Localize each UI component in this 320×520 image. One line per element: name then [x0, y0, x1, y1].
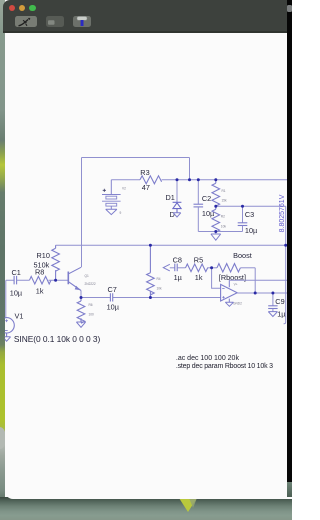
svg-text:C1: C1	[12, 268, 21, 277]
svg-text:Boost: Boost	[233, 251, 252, 260]
junction boost rail right	[284, 244, 287, 247]
toolbar pause icon (disabled)	[48, 20, 55, 25]
svg-text:100: 100	[89, 313, 95, 317]
ground (divider)	[211, 234, 221, 240]
svg-text:V2: V2	[122, 187, 126, 191]
resistor Rboost (feedback)	[212, 267, 217, 269]
wire V+ supply	[229, 279, 290, 281]
junction boost rail at R4	[149, 244, 152, 247]
svg-text:R10: R10	[37, 251, 50, 260]
ground (D1)	[173, 213, 181, 217]
capacitor C9	[268, 293, 277, 312]
svg-text:R1: R1	[222, 189, 226, 193]
capacitor C8	[175, 264, 177, 272]
toolbar run icon	[19, 18, 30, 26]
svg-text:1µ: 1µ	[277, 310, 286, 319]
junction divider mid node	[214, 205, 217, 208]
svg-text:.ac dec 100 100 20k: .ac dec 100 100 20k	[176, 355, 240, 362]
wire right vertical	[284, 206, 286, 323]
wire base	[49, 279, 69, 281]
wire mid node	[216, 205, 286, 207]
svg-text:R4: R4	[157, 277, 161, 281]
ground (emitter)	[76, 322, 85, 327]
svg-text:R3: R3	[140, 168, 149, 177]
svg-text:8.8025761V: 8.8025761V	[279, 194, 286, 232]
wire feedback drop	[254, 268, 256, 293]
svg-text:D: D	[170, 210, 175, 219]
capacitor C7	[110, 293, 112, 301]
svg-text:Q1: Q1	[85, 274, 89, 278]
wire R5 out	[207, 267, 211, 269]
svg-text:15k: 15k	[222, 199, 228, 203]
resistor R4 (mid)	[147, 245, 155, 297]
svg-text:10µ: 10µ	[107, 302, 120, 311]
svg-text:10k: 10k	[221, 225, 227, 229]
wire output rail	[237, 292, 290, 294]
ground (battery)	[106, 209, 117, 214]
ground (V1)	[3, 337, 11, 341]
junction at C3 top	[241, 205, 244, 208]
ground (C9)	[268, 312, 277, 317]
svg-text:C8: C8	[173, 256, 182, 265]
resistor R10	[52, 245, 60, 280]
resistor R8	[30, 276, 51, 284]
toolbar hammer icon	[77, 17, 87, 27]
capacitor C3	[238, 206, 248, 231]
svg-text:10µ: 10µ	[245, 226, 258, 235]
wire drop to supply rail	[189, 158, 191, 180]
junction divider bottom	[214, 230, 217, 233]
resistor R1 (divider top)	[212, 180, 220, 207]
svg-text:V+: V+	[234, 283, 238, 287]
svg-text:2N2222: 2N2222	[85, 282, 96, 286]
capacitor C1	[6, 276, 30, 285]
svg-text:.step dec param Rboost 10 10k: .step dec param Rboost 10 10k 3	[176, 363, 273, 370]
svg-text:1µ: 1µ	[174, 273, 183, 282]
resistor R3	[140, 176, 162, 184]
svg-text:10µ: 10µ	[10, 289, 23, 298]
svg-text:SINE(0 0.1 10k 0 0 0 3): SINE(0 0.1 10k 0 0 0 3)	[14, 334, 101, 344]
junction output / feedback	[254, 292, 257, 295]
svg-text:47: 47	[142, 183, 150, 192]
wire to plus input	[212, 268, 221, 289]
junction R5 / feedback node	[210, 266, 213, 269]
resistor R6 (emitter)	[77, 298, 85, 324]
wire divider bottom	[198, 231, 242, 233]
capacitor C2	[194, 180, 204, 232]
svg-text:9: 9	[120, 211, 122, 215]
resistor R2 (divider bottom)	[212, 206, 220, 232]
junction emitter node	[80, 296, 83, 299]
svg-text:1k: 1k	[36, 287, 44, 296]
desktop triangle decoration	[179, 498, 197, 512]
junction output at C9	[271, 292, 274, 295]
wire top rail (collector net)	[82, 157, 190, 159]
svg-text:R5: R5	[194, 256, 203, 265]
wire boost rail	[56, 244, 286, 246]
svg-text:GND2: GND2	[233, 302, 242, 306]
transistor Q1	[68, 267, 81, 290]
ground (op-amp V-)	[225, 302, 233, 306]
svg-text:C3: C3	[245, 210, 254, 219]
junction at D1 top	[176, 178, 179, 181]
svg-text:V1: V1	[15, 312, 24, 321]
diode D1	[176, 180, 178, 202]
svg-text:10k: 10k	[157, 287, 163, 291]
svg-text:D1: D1	[166, 193, 175, 202]
junction at divider top	[214, 178, 217, 181]
junction supply rail / top rail drop	[188, 178, 191, 181]
svg-text:R8: R8	[35, 268, 44, 277]
svg-text:C9: C9	[275, 297, 284, 306]
resistor R5	[186, 264, 208, 272]
svg-text:C7: C7	[108, 285, 117, 294]
wire collector drop	[81, 158, 83, 268]
junction base node	[54, 279, 57, 282]
wire supply rail	[111, 179, 290, 181]
wire C8-R5	[177, 267, 185, 269]
svg-text:R6: R6	[89, 303, 93, 307]
svg-text:1k: 1k	[195, 273, 203, 282]
junction at C2 top	[197, 178, 200, 181]
voltage source V1	[5, 280, 7, 318]
battery V2	[102, 180, 121, 210]
wire emitter rail	[81, 297, 221, 299]
svg-text:R2: R2	[221, 215, 225, 219]
net port flag (C8 input)	[163, 264, 170, 271]
wire emitter drop	[80, 291, 82, 298]
op-amp U1	[221, 280, 238, 302]
junction emitter rail at R4	[149, 296, 152, 299]
svg-text:C2: C2	[202, 194, 211, 203]
